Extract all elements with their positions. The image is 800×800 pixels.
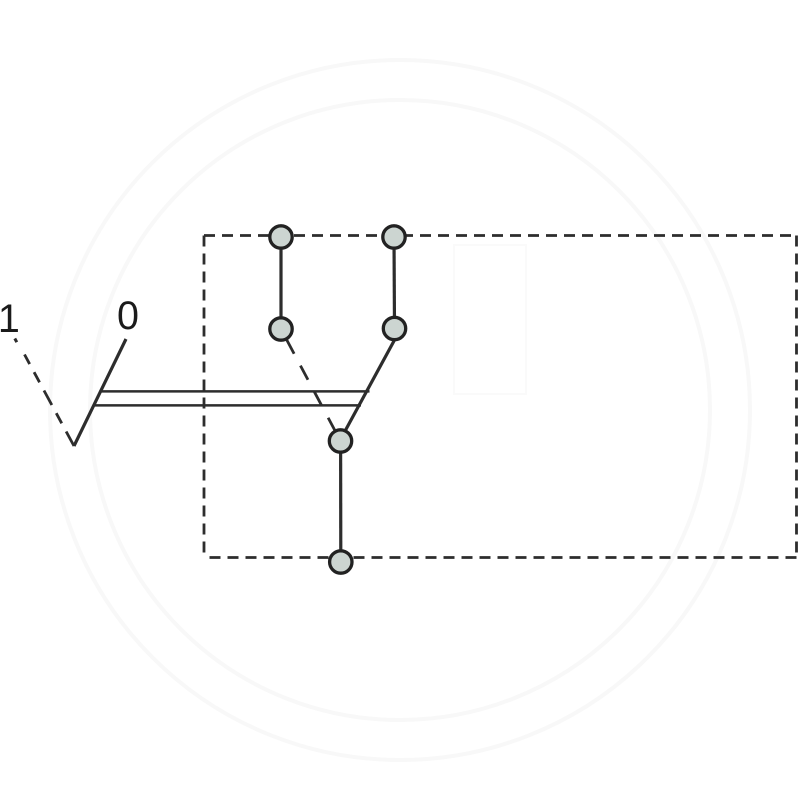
svg-text:0: 0	[117, 294, 139, 338]
svg-text:1: 1	[0, 297, 20, 341]
